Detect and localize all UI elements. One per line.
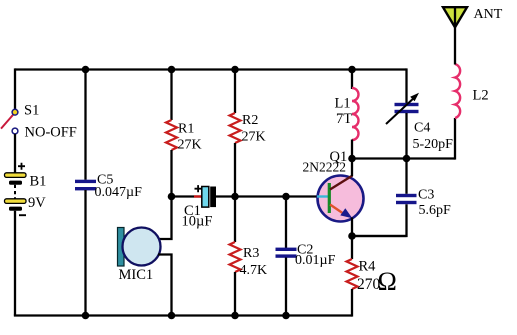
- wire collector node to transistor: [351, 159, 353, 177]
- svg-text:27K: 27K: [242, 130, 266, 145]
- svg-text:9V: 9V: [28, 195, 46, 211]
- wire C4 lower: [405, 113, 407, 159]
- antenna ANT: [443, 7, 503, 27]
- resistor R4: [347, 259, 397, 297]
- wire node to R3: [234, 197, 236, 243]
- svg-text:27K: 27K: [178, 138, 202, 153]
- wire R3 to bottom bus: [234, 272, 236, 316]
- svg-text:NO-OFF: NO-OFF: [25, 125, 77, 141]
- node C1 right: [231, 193, 239, 201]
- wire C2 branch lower: [285, 258, 287, 316]
- wire mic lower lead to bottom bus: [158, 255, 172, 316]
- svg-text:0.047µF: 0.047µF: [95, 185, 143, 200]
- capacitor C5: [75, 173, 142, 201]
- wire battery to bottom bus: [14, 211, 16, 316]
- wire C1 node down to mic: [158, 197, 172, 240]
- svg-text:Ω: Ω: [378, 267, 397, 296]
- wire collector line: [352, 157, 455, 159]
- wire C3 lower: [352, 204, 407, 237]
- switch S1: [1, 103, 77, 141]
- wire L2 lower lead: [454, 118, 456, 160]
- node bottom bus mic: [168, 312, 176, 320]
- wire C3 upper: [405, 159, 407, 194]
- svg-text:0.01µF: 0.01µF: [295, 253, 336, 268]
- node C1 left: [168, 193, 176, 201]
- wire top bus: [15, 68, 407, 70]
- wire R1 to C1 node: [170, 150, 172, 197]
- node C4 bottom: [403, 155, 411, 163]
- wire emitter line: [352, 235, 407, 237]
- svg-text:R3: R3: [243, 246, 259, 261]
- node top bus R2: [231, 66, 239, 74]
- svg-text:MIC1: MIC1: [119, 267, 154, 283]
- svg-text:R2: R2: [242, 113, 258, 128]
- svg-text:R4: R4: [359, 259, 377, 275]
- wire C2 branch upper: [285, 197, 287, 249]
- node bottom bus C2: [282, 312, 290, 320]
- svg-text:L2: L2: [473, 88, 489, 104]
- resistor R2: [230, 113, 266, 145]
- wire R4 upper: [351, 236, 353, 259]
- wire L1 bottom lead: [351, 140, 353, 159]
- capacitor C2: [276, 243, 336, 269]
- svg-text:5.6pF: 5.6pF: [419, 203, 452, 218]
- node top bus R1: [168, 66, 176, 74]
- svg-text:C3: C3: [418, 188, 434, 203]
- node emitter: [348, 232, 356, 240]
- wire L2 to antenna: [454, 26, 456, 65]
- node top bus L1: [348, 66, 356, 74]
- wire R1 branch upper: [170, 70, 172, 121]
- svg-text:10µF: 10µF: [182, 214, 213, 230]
- wire L1 top lead: [351, 70, 353, 90]
- svg-text:5-20pF: 5-20pF: [413, 137, 454, 152]
- battery B1: [5, 163, 47, 216]
- svg-text:L1: L1: [335, 96, 351, 112]
- microphone MIC1: [118, 228, 161, 284]
- node C2 top: [282, 193, 290, 201]
- capacitor C1 polarized: [182, 185, 217, 229]
- svg-text:R1: R1: [178, 122, 194, 137]
- wire R2 to node: [234, 143, 236, 197]
- wire C1 to R2 node: [216, 195, 235, 197]
- node top bus C5: [82, 66, 90, 74]
- svg-text:2N2222: 2N2222: [303, 160, 347, 175]
- resistor R3: [230, 242, 268, 278]
- wire C5 branch lower: [84, 190, 86, 316]
- node bottom bus C5: [82, 312, 90, 320]
- wire C1 node to C1 plate: [172, 195, 202, 197]
- resistor R1: [166, 120, 202, 153]
- variable capacitor C4: [386, 93, 453, 152]
- wire left rail upper: [14, 68, 16, 109]
- wire bottom bus: [15, 316, 352, 317]
- node bottom bus R3: [231, 312, 239, 320]
- wire emitter to node: [351, 218, 353, 237]
- wire base line: [235, 195, 318, 197]
- svg-text:C4: C4: [414, 121, 430, 136]
- capacitor C3: [396, 188, 451, 219]
- inductor L2: [455, 64, 489, 118]
- wire R2 branch upper: [234, 70, 236, 114]
- wire C4 upper: [405, 68, 407, 103]
- svg-text:4.7K: 4.7K: [240, 263, 268, 278]
- node collector: [348, 155, 356, 163]
- svg-text:7T: 7T: [336, 111, 352, 127]
- transistor Q1: [303, 149, 364, 222]
- svg-text:ANT: ANT: [474, 7, 503, 22]
- svg-text:S1: S1: [24, 103, 39, 119]
- inductor L1: [335, 88, 359, 140]
- wire R4 lower: [351, 289, 353, 317]
- svg-text:B1: B1: [30, 174, 47, 190]
- wire switch to battery: [14, 134, 16, 173]
- wire C5 branch upper: [84, 70, 86, 180]
- red tick at C1: [194, 195, 202, 197]
